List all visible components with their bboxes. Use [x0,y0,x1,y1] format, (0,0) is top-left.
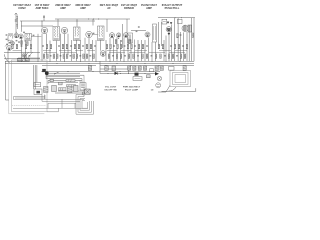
node bus junction 4 [63,60,66,63]
wire vertical drop 35 [151,42,153,61]
converter grid capacitor C5 [23,31,25,34]
node avc junction b [76,20,79,23]
grid capacitor C7 [93,32,95,35]
resistor R28 [138,44,140,48]
speaker cable loop 4 [82,101,88,109]
loop coupling coil L3 [34,89,42,95]
capacitor C27 [134,45,136,48]
node bus junction 12 [179,60,182,63]
filament bus wire left [42,64,96,66]
svg-text:PILOT LAMP: PILOT LAMP [125,89,139,92]
svg-text:AMP: AMP [80,6,86,10]
svg-text:AMP: AMP [60,6,66,10]
wire vertical drop 28 [127,37,129,61]
IF transformer T3 [74,27,81,41]
node bus junction 11 [165,60,168,63]
svg-text:AMP: AMP [146,6,152,10]
capacitor C42 [50,54,52,57]
wire vertical drop 17 [84,38,86,62]
capacitor C61 [105,66,108,71]
wire vertical drop 19 [92,40,94,61]
filter choke L4 [135,73,139,76]
resistor R68 [160,54,162,58]
label volume control [104,87,117,92]
wire grid drop V6 [121,24,123,48]
capacitor C66 [151,54,153,57]
diode load resistor R71 [115,40,117,44]
capacitor C72 [176,54,178,57]
node bus junction 3 [49,60,52,63]
wire cable run A [45,98,84,100]
wire audio link [131,30,146,32]
loop winding vertical [44,95,46,100]
capacitor C9 [58,45,60,48]
node power junction b [107,72,110,75]
wire row link 7 [121,50,132,52]
pilot lamp PL1 [157,76,162,81]
resistor R52 [83,54,85,58]
wire bottom jog [57,108,59,112]
wire B minus drop [128,69,130,73]
wire vertical drop 18 [88,38,90,62]
power cord pigtail [169,87,177,91]
node power junction [127,72,130,75]
wire vertical drop 24 [113,38,115,61]
switch SW1 [54,72,59,74]
diode D1 rectifier [115,72,118,75]
wire vertical drop 48 [188,25,190,61]
resistor R19 [106,44,108,48]
label tube stage 7: PH INV 6SC7 AMP [141,3,157,10]
resistor R44 [56,54,58,58]
tube V9 oscillator section [7,45,12,50]
resistor R55 [93,54,95,58]
tube V6 6SC7 phase inverter [145,32,150,37]
wire drop avc 5 [106,19,108,32]
coupling box T5 [128,33,133,43]
osc grid resistor R73 [21,41,23,45]
node bus junction 24 [119,70,122,73]
loop winding turn 2 [15,97,45,99]
node bus junction 19 [130,64,133,67]
ballast R64 [183,66,186,71]
svg-text:VOL CONT: VOL CONT [105,87,117,89]
wire vertical drop 4 [25,41,27,61]
output grid box B [178,19,183,23]
oscillator trimmer C3 [6,38,8,41]
wire nested loop 0 [46,74,84,76]
wire vertical drop 46 [183,32,185,61]
capacitor C18 [94,45,96,48]
capacitor C48 [70,54,72,57]
resistor R32 [162,44,164,48]
label tube stage 4: 3RD IF 6SK7 AMP [75,3,91,10]
wire vertical drop 11 [60,34,62,62]
tube V5 6SQ7 det-avc [109,33,114,38]
tube V5c triode section [123,33,128,38]
resistor R61 [128,54,130,58]
wire vertical drop 10 [56,41,58,62]
wire vertical drop 25 [116,37,118,61]
resistor R34 [174,44,176,48]
svg-text:DRIVER: DRIVER [124,6,134,10]
wire row link 12 [61,52,77,54]
resistor R50 [76,54,78,58]
wire V4 to T4 [92,34,97,36]
wire vertical drop 32 [141,40,143,61]
capacitor C33 [170,45,172,48]
wire loop left corner 2 [47,80,49,84]
node bus junction 21 [41,70,44,73]
B minus wire [100,68,129,70]
node bus junction 7 [109,60,112,63]
wire vertical drop 9 [49,41,51,62]
resistor R13 [74,44,76,48]
tone capacitor C52 [59,82,63,85]
wire vertical drop 6 [37,34,39,62]
wire vertical drop 23 [109,38,111,61]
resistor R5 [30,44,32,48]
wire vertical drop 38 [161,22,163,46]
node converter junction b [24,40,27,43]
node power junction d [144,72,147,75]
capacitor C45 [60,54,62,57]
wire vertical drop 44 [177,18,179,62]
resistor R29 [142,44,144,48]
capacitor C24 [124,45,126,48]
small box power [169,67,175,71]
wire left edge drop [5,61,7,100]
grid capacitor C9 [43,16,45,19]
osc grid capacitor C10 [18,41,20,44]
resistor R25 [127,44,129,48]
node bus junction 15 [116,62,119,65]
wire vertical drop 16 [80,40,82,61]
capacitor C51 [74,86,79,92]
wire vertical drop 45 [180,32,182,61]
resistor R43 [53,54,55,58]
avc capacitor C8 [121,40,123,43]
label box wave trap [17,58,29,62]
variable capacitor arrow b [28,52,33,58]
wire field riser [195,88,197,91]
wire row link 10 [175,50,187,52]
tube V3 6SK7 2nd IF [61,27,67,33]
capacitor C6 [42,45,44,48]
wire left lower horizontal [4,58,40,60]
wire vertical drop 31 [137,40,139,61]
output transformer T7 [188,25,192,32]
wire vertical drop 40 [165,36,167,62]
wire row link 3 [59,50,71,52]
coupling capacitor C13 [136,30,138,33]
converter cathode resistor R70 [27,42,29,46]
wire vertical drop 33 [144,40,146,61]
capacitor C21 [113,45,115,48]
wire vertical drop 22 [105,40,107,61]
svg-text:PUSH PULL: PUSH PULL [165,6,180,10]
tone control box [80,83,86,90]
resistor R14 [78,44,80,48]
wire vertical drop 41 [168,32,170,61]
variable capacitor arrow a [24,52,29,58]
coupling capacitor C6 [33,34,35,37]
wire row link 14 [129,52,145,54]
wire left mid horizontal [4,52,40,54]
IF transformer T4 [98,26,105,41]
filament bus wire [100,64,194,66]
resistor R63 [143,66,146,70]
node bus junction 2 [37,60,40,63]
wire top right segment [158,17,195,19]
node bus junction 16 [144,62,147,65]
tone capacitor C14 [138,26,140,29]
resistor R50 [44,86,49,92]
wire vertical drop 1 [7,51,9,62]
capacitor C15 [82,45,84,48]
resistor R20 [110,44,112,48]
tube V8 6V6 output 2 [182,25,188,31]
resistor R53 [66,80,75,82]
resistor R46 [63,54,65,58]
antenna ANT [15,13,18,29]
resistor R59 [120,54,122,58]
wire vertical drop 15 [76,40,78,61]
wire vertical drop 42 [171,25,173,62]
label tube stage 2: 1ST IF 6SK7 AMP 50KC [35,3,51,10]
wire cable riser e [74,103,76,108]
wire row link 15 [149,52,165,54]
terminal strip TS1 [34,82,41,86]
wire drop avc 2 [57,19,59,26]
wire vertical drop 30 [134,40,136,62]
wire cable run C [48,102,76,104]
resistor R16 [86,44,88,48]
node avc junction a [41,20,44,23]
wire vertical drop 37 [158,22,160,46]
capacitor C63 [137,54,139,57]
resistor R58 [116,54,118,58]
chassis ground wire 2 [55,92,90,94]
resistor R40 [43,54,45,58]
power cord loop outer [170,71,191,87]
capacitor C69 [164,54,166,57]
wire loop vertical a [33,65,35,89]
wire vertical drop 26 [120,40,122,61]
wire drop avc 1 [41,21,43,27]
wire left edge link [6,99,9,101]
interstage transformer T6 [153,24,157,42]
tube V4 6SK7 3rd IF [86,31,92,37]
node bus junction 22 [67,70,70,73]
svg-text:AF: AF [107,6,111,10]
wire bottom ledge [47,111,58,113]
IF transformer T1 [25,33,31,40]
screen bus wire [5,62,194,64]
wire nested loop 3 [48,79,82,81]
grid resistor R74 [177,34,179,38]
rectifier output wire [100,72,157,74]
resistor R8 [50,44,52,48]
capacitor C36 [182,45,184,48]
capacitor C60 [124,54,126,57]
resistor R61 [133,66,136,70]
grid stopper marks V7 [167,22,172,36]
wire left power drop [99,61,101,73]
resistor R74 [184,54,186,58]
mixer bypass capacitor C11 [16,39,18,42]
wire vertical drop 34 [148,38,150,62]
resistor R31 [158,44,160,48]
wire cable riser b [41,95,43,101]
wire cable riser a [44,95,46,99]
wire vertical drop 49 [191,18,193,62]
resistor R73 [180,54,182,58]
node bus junction 5 [79,60,82,63]
wire vertical drop 47 [186,32,188,61]
node detector junction [117,37,120,40]
node bus junction 18 [105,64,108,67]
resistor R49 [73,54,75,58]
resistor R60 [128,66,131,70]
wire vertical drop 5 [30,41,32,53]
wire nested loop 2 [46,78,82,80]
capacitor C64 line filter [147,75,151,78]
wire cord exit [158,85,170,92]
node bus junction 20 [158,64,161,67]
resistor R62 [133,54,135,58]
resistor R62 [138,66,141,70]
node bus junction 6 [95,60,98,63]
label tube stage 5: DET AVC 6SQ7 AF [100,3,119,10]
svg-text:PWR 35Z5 RECT: PWR 35Z5 RECT [123,87,141,89]
speaker cable loop 3 [80,99,90,111]
wire loop corner a [83,75,85,92]
wire vertical drop 2 [15,29,17,33]
wire loop vertical b [34,65,36,89]
resistor R51 [59,88,67,91]
cathode resistor R72 [129,40,131,44]
node grid bus junction b [92,18,95,21]
loop antenna shadow [9,63,45,114]
svg-text:ON-OFF SW: ON-OFF SW [104,90,117,92]
speaker output transformer T8 [85,89,90,94]
tone resistor R54 [67,85,76,87]
resistor R67 [155,54,157,58]
B+ bus wire [5,60,194,62]
capacitor C51 [79,54,81,57]
capacitor C30 [146,45,148,48]
resistor R4 [25,44,27,48]
wire bottom run [13,107,88,109]
wire loop corner b [81,79,83,88]
fuse box F1 [133,77,142,81]
IF transformer T2 [53,27,60,41]
node bus junction 23 [92,70,95,73]
chassis ground wire 1 [58,90,84,92]
wire vertical drop 39 [163,40,165,61]
wire tuning row [18,57,40,59]
wire drop avc 3 [76,19,78,27]
resistor R17 [90,44,92,48]
svg-text:CONV: CONV [18,6,26,10]
capacitor C39 [29,54,31,57]
resistor R37 [186,44,188,48]
resistor R10 [62,44,64,48]
wire vertical drop 13 [67,34,69,55]
resistor R70 [168,54,170,58]
capacitor C54 [89,54,91,57]
loop antenna dashed lead [12,105,46,107]
loop winding turn 1 [14,97,45,100]
wire speaker leads [83,92,85,97]
wire vertical drop 7 [41,34,43,62]
wire vertical drop 12 [64,34,66,62]
wire cable run B [42,100,80,102]
wire top grid bus [55,18,130,20]
electrolytic C63 [160,66,163,70]
wire row link 9 [159,50,171,52]
wire vertical drop 3 [21,39,23,62]
resistor R7 [46,44,48,48]
junction blob left box [42,69,46,72]
resistor R64 [142,54,144,58]
wire vertical drop 20 [95,40,97,61]
resistor R41 [47,54,49,58]
trimmer capacitor C15 [22,54,25,57]
wire loop corner c [79,80,81,82]
wire row link 11 [44,52,57,54]
wire cable riser d [61,99,63,108]
node bus junction 10 [151,60,154,63]
node top-right junction 2 [180,16,183,19]
resistor R38 [25,54,27,58]
wire drop avc 4 [92,19,94,26]
bass capacitor C53 [50,79,53,81]
resistor R23 [120,44,122,48]
node bus junction 17 [172,62,175,65]
wire vertical drop 8 [46,34,48,55]
electrolytic C62 [155,66,158,70]
output grid box A [162,19,167,24]
label tube stage 1: 1ST DET 6SA7 CONV [13,3,31,10]
tube V2 6SK7 1st IF [41,27,47,33]
label tube stage 3: 2ND IF 6SK7 AMP [55,3,71,10]
coupling capacitor C12 [180,34,182,37]
label rectifier [123,87,141,92]
label tube stage 8: 6V6-GT OUTPUT PUSH PULL [162,3,183,10]
resistor R1 [12,44,14,48]
wire vertical drop 50 [193,18,195,62]
wire vertical drop 27 [123,37,125,61]
antenna coil L1 [8,33,13,41]
capacitor C60 [88,66,91,71]
tuning capacitor C1 (variable) [5,43,9,47]
antenna coil ladder rail [16,16,18,30]
resistor R56 [108,54,110,58]
node bus junction 14 [88,62,91,65]
speaker cable loop 2 [78,97,92,113]
wire loop vertical c [36,65,38,82]
tube V1 6SA7 converter section b [19,34,24,39]
capacitor C3 [21,45,23,48]
label tube stage 6: 1ST AF 6SQ7 DRIVER [121,3,138,10]
padder capacitor C4 [9,41,11,44]
svg-text:1/2: 1/2 [151,90,155,92]
wire row link 4 [75,50,83,52]
wire row link 6 [107,50,118,52]
resistor R26 [131,44,133,48]
